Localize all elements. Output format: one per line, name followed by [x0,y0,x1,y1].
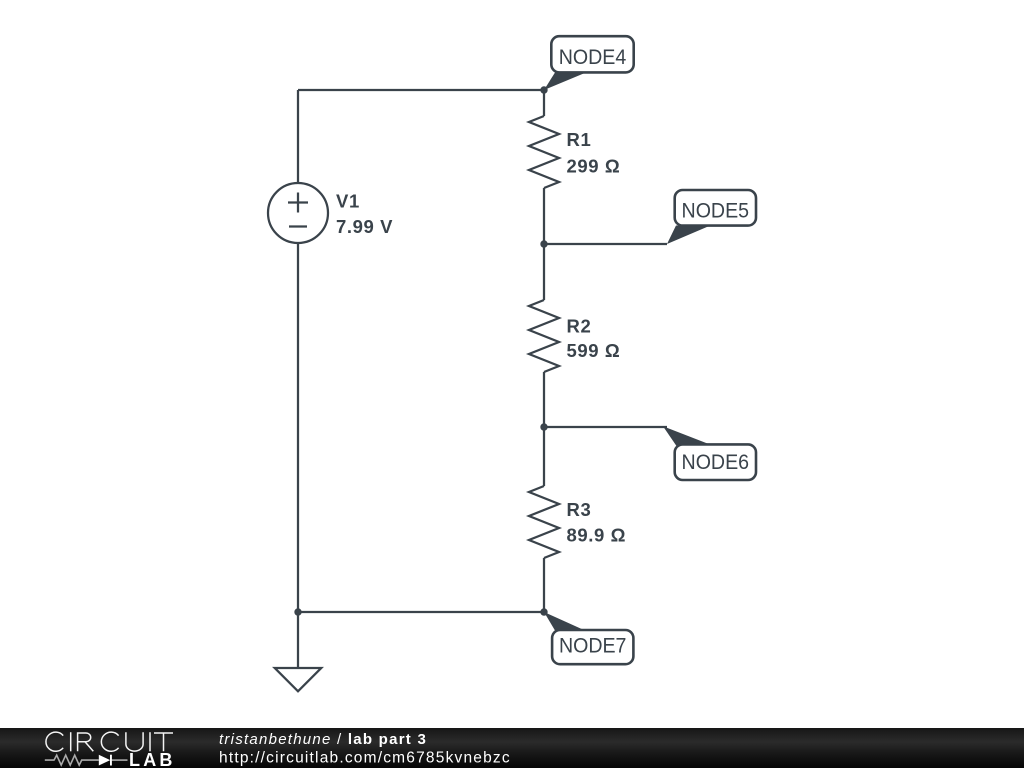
wire R2 bottom lead to node NODE6 [543,372,545,427]
junction dot node NODE7 [540,608,547,615]
node label box NODE5 [675,190,756,226]
svg-text:LAB: LAB [129,750,176,768]
CircuitLab logo wordmark CIRCUIT (drawn) [46,732,173,751]
CircuitLab logo diode triangle and bar [99,755,110,766]
footer bar [0,728,1024,768]
wire top horizontal (V1+ to NODE4) [298,89,544,91]
wire NODE5 horizontal tap [544,243,667,245]
node label tail NODE5 [667,226,708,245]
svg-text:tristanbethune / lab part 3: tristanbethune / lab part 3 [219,731,427,748]
node label tail NODE4 [544,73,586,91]
wire R3 top lead [543,427,545,486]
resistor R3 zigzag body [529,486,559,558]
resistor R2 zigzag body [529,300,559,372]
wire R1 top lead from node NODE4 [543,90,545,116]
node label box NODE7 [552,630,633,664]
svg-text:http://circuitlab.com/cm6785kv: http://circuitlab.com/cm6785kvnebzc [219,750,511,767]
CircuitLab logo resistor-diode squiggle [45,755,128,765]
junction dot bottom-left corner [294,608,301,615]
ground symbol [275,668,321,691]
junction dot node NODE5 [540,240,547,247]
node label box NODE6 [675,444,756,480]
node label box NODE4 [551,36,633,72]
wire left vertical (top wire to V1 plus terminal) [297,90,299,183]
wire left vertical (V1 minus terminal to bottom wire) [297,243,299,612]
node label tail NODE7 [544,612,585,631]
wire R3 bottom lead to node NODE7 [543,558,545,612]
junction dot node NODE4 [540,86,547,93]
V1 minus sign [289,225,307,227]
wire ground stub [297,612,299,667]
V1 plus sign [288,201,308,203]
node label tail NODE6 [663,426,710,446]
wire R2 top lead [543,244,545,300]
junction dot node NODE6 [540,423,547,430]
voltage source V1 circle [268,183,328,243]
resistor R1 zigzag body [529,116,559,188]
wire NODE6 horizontal tap [544,426,667,428]
wire bottom horizontal (V1- to NODE7) [298,611,544,613]
wire R1 bottom lead to node NODE5 [543,188,545,244]
